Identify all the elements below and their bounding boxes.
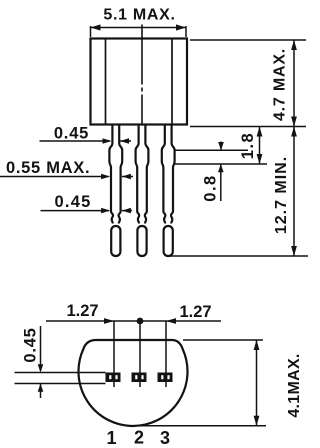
package outline (bottom view) [78,340,187,426]
pin 3 extension line [165,321,167,387]
pin 1 pad [106,373,121,383]
svg-text:12.7 MIN.: 12.7 MIN. [273,156,290,234]
leader line B (lead shoulder end) [174,163,267,165]
pin 3 pad [158,373,173,383]
dimension 0.45 (pin height, bottom view) [15,326,106,398]
svg-text:4.7 MAX.: 4.7 MAX. [272,48,289,121]
body inner right line [171,39,173,125]
dimension 5.1 MAX. [91,7,187,38]
lead 3 [162,125,175,257]
svg-text:0.45: 0.45 [22,327,40,362]
dimension 1.27 left [46,302,221,325]
extension line bottom right (lead tips) [167,255,308,257]
body inner left line [105,39,107,125]
transistor body outline (side view) [91,39,188,125]
pin 2 extension line [139,321,141,387]
svg-text:0.45: 0.45 [54,124,89,142]
svg-text:4.1MAX.: 4.1MAX. [286,353,303,417]
svg-text:3: 3 [160,428,170,448]
dimension 0.8 [202,142,224,202]
label 0.45 (upper left, lead width at body) [40,124,132,144]
dimension 1.8 [239,127,262,165]
extension line mid right (body bottom) [190,126,306,128]
dimension 4.7 MAX. [272,40,297,127]
leader line A (lead shoulder) [175,149,248,151]
body center dashed line [141,25,143,126]
pin 2 pad [132,373,147,383]
svg-text:5.1 MAX.: 5.1 MAX. [103,7,175,24]
dimension 1.27 right [166,303,212,324]
pin 1 extension line [113,321,115,387]
label 0.55 MAX. (left, lead width) [0,159,133,180]
svg-text:1.27: 1.27 [66,302,98,320]
svg-text:0.55 MAX.: 0.55 MAX. [6,159,90,177]
svg-text:1: 1 [106,428,116,448]
extension line top right (body top) [190,39,306,41]
label 0.45 (lower left) [41,193,133,214]
svg-text:0.8: 0.8 [202,174,220,201]
dimension 4.1 MAX. [140,340,303,426]
svg-text:1.8: 1.8 [239,132,257,159]
svg-text:1.27: 1.27 [179,303,211,321]
dimension 12.7 MIN. [273,127,297,257]
svg-text:0.45: 0.45 [55,193,92,211]
lead 1 [109,125,122,257]
lead 2 [136,125,149,257]
svg-text:2: 2 [134,428,144,448]
